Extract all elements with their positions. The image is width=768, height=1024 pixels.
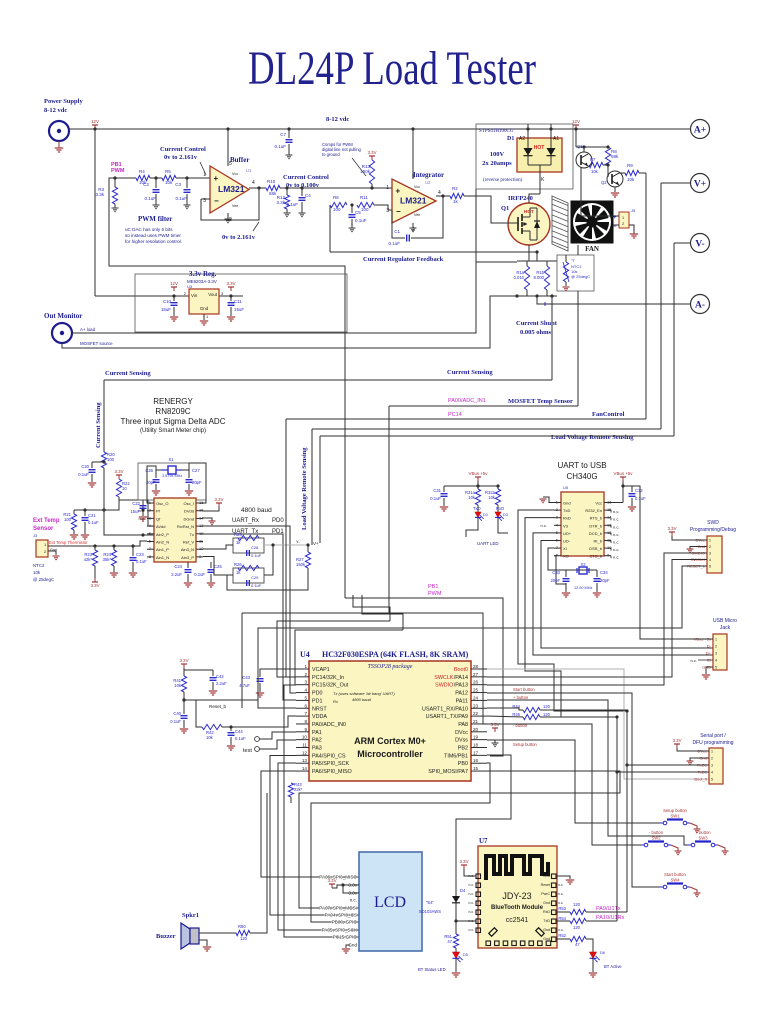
- svg-text:n.c.: n.c.: [350, 898, 357, 903]
- outline box crystal X1: [138, 463, 206, 500]
- svg-text:Q3: Q3: [577, 144, 583, 149]
- svg-text:Current Control: Current Control: [283, 174, 329, 181]
- svg-text:PD1: PD1: [312, 698, 323, 704]
- svg-text:DSR_b: DSR_b: [589, 546, 603, 551]
- svg-text:2: 2: [709, 545, 711, 549]
- wire U2 pin5 to rail: [412, 129, 414, 179]
- terminal A+: [691, 120, 710, 139]
- svg-text:SW4: SW4: [670, 878, 680, 883]
- wire R5 to U1 pin1: [176, 177, 210, 179]
- svg-text:DFU programming: DFU programming: [692, 740, 733, 746]
- wires fan to J5: [613, 215, 619, 217]
- svg-text:C33: C33: [552, 570, 560, 575]
- svg-text:23: 23: [473, 703, 479, 708]
- LCD module: [359, 852, 422, 951]
- JDY right pin: [552, 919, 557, 924]
- MCU DVss ground: [487, 740, 495, 743]
- capacitor C22: [104, 510, 154, 535]
- wire NTC1 sense down: [577, 245, 579, 255]
- svg-text:100: 100: [107, 457, 115, 462]
- svg-text:+: +: [214, 174, 219, 183]
- ground SW2: [671, 845, 678, 851]
- wire ADC Ain3_P to RC2: [203, 557, 233, 576]
- svg-text:HOT: HOT: [534, 145, 545, 151]
- resistor R7: [589, 162, 603, 167]
- svg-text:19: 19: [473, 735, 479, 740]
- ground SW1: [690, 823, 697, 829]
- connector USB micro: [713, 634, 727, 670]
- resistor R31a: [476, 484, 479, 487]
- svg-text:Current Sensing: Current Sensing: [95, 402, 102, 448]
- svg-text:TxD: TxD: [563, 508, 570, 513]
- svg-text:C7: C7: [280, 132, 286, 137]
- svg-text:+ button: + button: [695, 830, 711, 835]
- ground below C2: [155, 194, 157, 205]
- crystal X2 circuit: [548, 548, 576, 570]
- svg-text:n.c.: n.c.: [613, 532, 619, 537]
- capacitor C24: [187, 562, 189, 568]
- svg-text:SWD: SWD: [707, 520, 719, 526]
- svg-text:Vin: Vin: [191, 293, 198, 298]
- svg-text:FAN: FAN: [585, 245, 599, 253]
- svg-text:R7: R7: [590, 157, 596, 162]
- resistor R51: [453, 934, 458, 948]
- svg-text:0.005 ohms: 0.005 ohms: [520, 329, 552, 336]
- svg-text:120: 120: [573, 902, 581, 907]
- svg-text:100: 100: [333, 207, 341, 212]
- svg-text:ARM Cortex M0+: ARM Cortex M0+: [354, 736, 426, 746]
- svg-text:D2: D2: [483, 513, 488, 517]
- svg-text:C21: C21: [88, 513, 96, 518]
- svg-text:(Utility Smart Meter chip): (Utility Smart Meter chip): [140, 428, 206, 434]
- wire PC15 to LCD PC15 GPIO: [284, 685, 359, 937]
- svg-text:BlueTooth Module: BlueTooth Module: [491, 905, 544, 911]
- capacitor C2: [155, 178, 157, 188]
- svg-text:35k*: 35k*: [103, 557, 112, 562]
- svg-text:n.c.: n.c.: [613, 517, 619, 522]
- svg-text:27: 27: [473, 672, 479, 677]
- svg-text:12: 12: [302, 750, 308, 755]
- svg-text:R54: R54: [558, 916, 566, 921]
- svg-text:C10: C10: [163, 299, 172, 304]
- svg-text:USART1_TX/PA9: USART1_TX/PA9: [426, 714, 468, 720]
- svg-text:10k: 10k: [468, 495, 476, 500]
- svg-text:PA12: PA12: [455, 691, 468, 697]
- svg-text:D6: D6: [600, 951, 605, 955]
- svg-text:0v to 2.161v: 0v to 2.161v: [222, 234, 256, 241]
- wire PA4 CS to LCD: [270, 756, 359, 916]
- svg-text:120: 120: [543, 712, 551, 717]
- svg-text:U5: U5: [563, 485, 569, 490]
- wire bundle above MCU 1: [242, 612, 389, 614]
- wire D4 to JDY: [455, 903, 457, 934]
- svg-text:n.c.: n.c.: [469, 919, 475, 923]
- svg-text:Three input Sigma Delta ADC: Three input Sigma Delta ADC: [121, 417, 226, 426]
- svg-text:Load Voltage Remote Sensing: Load Voltage Remote Sensing: [551, 434, 634, 441]
- svg-text:4.7uF: 4.7uF: [239, 683, 250, 688]
- terminal A-: [691, 295, 710, 314]
- svg-text:HC32F030ESPA (64K FLASH, 8K SR: HC32F030ESPA (64K FLASH, 8K SRAM): [322, 650, 469, 659]
- svg-text:Microcontroller: Microcontroller: [357, 749, 423, 759]
- svg-text:22: 22: [473, 711, 479, 716]
- SWD 3.3V: [671, 532, 673, 536]
- svg-text:0.1uF: 0.1uF: [635, 496, 646, 501]
- wire RC2 up to V+ node: [264, 545, 273, 575]
- svg-text:100: 100: [361, 207, 369, 212]
- svg-text:A+ load: A+ load: [80, 327, 96, 332]
- svg-text:TxD: TxD: [543, 919, 550, 923]
- svg-text:A2: A2: [519, 136, 525, 142]
- svg-text:Ain2_P: Ain2_P: [156, 532, 169, 537]
- wire UART_Tx net: [203, 534, 296, 700]
- svg-text:100: 100: [64, 517, 72, 522]
- chip U5 CH340G: [561, 492, 604, 556]
- capacitor C33: [565, 570, 567, 577]
- svg-text:24: 24: [473, 695, 479, 700]
- svg-text:DVcc: DVcc: [455, 730, 468, 736]
- wire U1 pin2 ground: [227, 213, 229, 219]
- JDY corner component right: [536, 928, 544, 936]
- svg-text:7: 7: [304, 711, 307, 716]
- svg-text:SW1: SW1: [670, 814, 680, 819]
- svg-text:PA4/SPI0_CS: PA4/SPI0_CS: [312, 753, 346, 759]
- svg-text:DL24P Load Tester: DL24P Load Tester: [248, 42, 536, 95]
- SWD ground: [690, 547, 707, 550]
- svg-text:15uF: 15uF: [234, 307, 244, 312]
- svg-text:Reset_b: Reset_b: [209, 704, 227, 709]
- JDY 3.3V supply: [463, 865, 465, 869]
- body diode in Q1: [536, 219, 538, 228]
- svg-text:8-12 vdc: 8-12 vdc: [326, 116, 349, 123]
- wire plus button net: [487, 700, 688, 845]
- svg-text:0.1uF: 0.1uF: [274, 144, 286, 149]
- connector serial DFU: [709, 748, 723, 784]
- capacitor C5: [351, 205, 353, 213]
- resistor R2: [450, 193, 464, 198]
- svg-text:C42: C42: [216, 674, 224, 679]
- svg-text:12V: 12V: [170, 281, 178, 286]
- svg-text:@ 25degC: @ 25degC: [571, 274, 590, 279]
- svg-text:Ext Temp Thermistor: Ext Temp Thermistor: [49, 540, 88, 545]
- svg-text:Gnd: Gnd: [543, 874, 550, 878]
- wire CH340G gnd pin1: [543, 497, 554, 503]
- svg-text:C24: C24: [174, 564, 182, 569]
- resistor R27: [306, 543, 309, 546]
- LCD ground: [346, 945, 350, 948]
- svg-text:0.010: 0.010: [514, 275, 525, 280]
- svg-text:3: 3: [711, 764, 713, 768]
- svg-text:PA6/SPI0_MISO: PA6/SPI0_MISO: [312, 769, 352, 775]
- svg-text:Boot_0: Boot_0: [694, 777, 707, 782]
- wire shunt to A- terminal: [537, 296, 690, 304]
- svg-text:PWM: PWM: [428, 591, 442, 597]
- svg-text:Ain2_N: Ain2_N: [156, 540, 169, 545]
- JDY right pin: [552, 892, 557, 897]
- svg-text:UD-: UD-: [563, 539, 571, 544]
- JDY right pin: [552, 874, 557, 879]
- svg-text:Serial port /: Serial port /: [700, 733, 726, 739]
- wire ADC Ain3_N to RC: [203, 545, 233, 549]
- svg-text:XI: XI: [563, 546, 567, 551]
- svg-text:4: 4: [715, 659, 717, 663]
- svg-text:n.c.: n.c.: [558, 901, 564, 905]
- wire NTC1 top: [565, 255, 567, 262]
- svg-text:47: 47: [447, 939, 452, 944]
- resistor R23: [93, 544, 96, 547]
- wire U1 pin5 to rail: [227, 129, 229, 166]
- svg-text:AVdd: AVdd: [156, 524, 166, 529]
- wire PC14 net to MCU: [286, 419, 296, 677]
- svg-text:21: 21: [473, 719, 479, 724]
- svg-text:4: 4: [252, 180, 255, 186]
- capacitor C31: [443, 486, 445, 492]
- capacitor C43 VCAP1: [260, 669, 296, 677]
- JDY right pin: [552, 901, 557, 906]
- svg-text:4: 4: [709, 558, 711, 562]
- diode D1a: [524, 148, 533, 156]
- svg-text:+: +: [396, 186, 401, 195]
- svg-text:V-: V-: [695, 240, 704, 250]
- svg-text:Ext Temp: Ext Temp: [33, 518, 60, 524]
- svg-text:Current Sensing: Current Sensing: [447, 369, 493, 376]
- op-amp U2 LM321: [392, 179, 436, 223]
- svg-text:n.c.: n.c.: [469, 883, 475, 887]
- transistor Q2: [607, 171, 623, 187]
- chip U2 RN8209C ADC: [154, 498, 196, 562]
- svg-text:R6: R6: [333, 195, 339, 200]
- svg-text:2: 2: [715, 645, 717, 649]
- svg-text:1: 1: [386, 185, 389, 191]
- svg-text:Current Regulator Feedback: Current Regulator Feedback: [363, 256, 444, 263]
- svg-text:PA2: PA2: [312, 738, 322, 744]
- svg-text:10k: 10k: [591, 169, 599, 174]
- svg-text:47: 47: [575, 942, 580, 947]
- svg-text:VBus +5v: VBus +5v: [614, 471, 634, 476]
- svg-text:20pF: 20pF: [600, 578, 610, 583]
- svg-text:Vcc: Vcc: [595, 501, 602, 506]
- wire V- sense: [674, 242, 690, 244]
- resistor R21 capacitor C21: [74, 509, 104, 511]
- capacitor C1 feedback: [392, 210, 405, 238]
- svg-text:Ain3_N: Ain3_N: [181, 547, 194, 552]
- svg-text:100V: 100V: [490, 151, 505, 158]
- wire buzzer to R50: [199, 932, 236, 934]
- svg-text:test: test: [243, 748, 252, 754]
- svg-text:1: 1: [622, 216, 624, 220]
- svg-text:Integrator: Integrator: [413, 171, 444, 179]
- svg-text:V+: V+: [694, 180, 706, 190]
- resistor R32a: [496, 484, 499, 487]
- svg-text:Start button: Start button: [513, 687, 535, 692]
- svg-text:Gnd: Gnd: [200, 306, 209, 311]
- svg-text:1: 1: [304, 664, 307, 669]
- svg-text:0.1uF: 0.1uF: [78, 472, 89, 477]
- svg-text:Gnd: Gnd: [543, 937, 550, 941]
- JDY left pin: [476, 874, 481, 879]
- wire J5 ground: [629, 225, 634, 234]
- wire R10 to U2: [280, 187, 392, 189]
- wire start button net: [487, 693, 660, 887]
- wires diodes to rail: [527, 124, 529, 148]
- svg-text:/PA13: /PA13: [454, 683, 468, 689]
- svg-text:Gnd: Gnd: [563, 501, 571, 506]
- power flag 12V at fan: [575, 125, 577, 129]
- test points: [255, 737, 260, 742]
- svg-text:D3: D3: [503, 513, 508, 517]
- svg-text:3.3V: 3.3V: [226, 281, 235, 286]
- wire PB0 loop to LCD: [311, 763, 490, 922]
- svg-text:C40: C40: [173, 711, 181, 716]
- svg-text:BT Active: BT Active: [604, 964, 622, 969]
- JDY top right ground: [556, 876, 570, 879]
- capacitor C23: [131, 544, 134, 547]
- svg-text:HOT: HOT: [524, 209, 534, 214]
- svg-text:U3: U3: [187, 284, 193, 289]
- ground U3: [203, 314, 205, 320]
- ADC DGnd ground: [203, 518, 212, 521]
- svg-text:n.c.: n.c.: [558, 892, 564, 896]
- svg-text:PWM: PWM: [111, 168, 125, 174]
- svg-text:3.3V: 3.3V: [667, 526, 676, 531]
- svg-text:0.1uF: 0.1uF: [286, 202, 298, 207]
- svg-text:150k: 150k: [360, 169, 371, 174]
- resistor R22 3.3V: [118, 475, 120, 479]
- svg-text:6: 6: [304, 703, 307, 708]
- svg-text:Programming/Debug: Programming/Debug: [690, 527, 736, 533]
- wire Q1 drain: [529, 194, 540, 203]
- diode block D1 yellow: [517, 138, 562, 172]
- svg-text:10k: 10k: [174, 683, 182, 688]
- svg-text:R11: R11: [360, 195, 368, 200]
- wire RC to V+ node gray: [264, 544, 308, 546]
- svg-text:RxD: RxD: [543, 910, 550, 914]
- svg-text:DVss: DVss: [455, 738, 468, 744]
- svg-text:Vee: Vee: [414, 213, 420, 217]
- wire R9 to fan control: [639, 172, 646, 174]
- svg-text:D4: D4: [460, 888, 466, 893]
- capacitor C32: [631, 486, 633, 492]
- svg-text:12.00 MHz: 12.00 MHz: [574, 586, 592, 590]
- wire R50 up: [250, 793, 267, 933]
- svg-text:Current Sensing: Current Sensing: [105, 370, 151, 377]
- wire to D4: [456, 755, 511, 896]
- wire U2 output to R2: [436, 195, 450, 197]
- wire SWCLK net: [487, 560, 707, 678]
- svg-text:Q1: Q1: [501, 205, 509, 212]
- svg-text:CTS_b: CTS_b: [590, 554, 603, 559]
- svg-text:11: 11: [302, 743, 307, 748]
- svg-text:PA0/ADC_IN0: PA0/ADC_IN0: [312, 722, 346, 728]
- svg-text:so instead uses PWM timer: so instead uses PWM timer: [125, 233, 181, 238]
- JDY left pin: [476, 892, 481, 897]
- capacitor C34: [596, 570, 598, 577]
- svg-text:C4: C4: [305, 193, 311, 198]
- svg-text:0.1uF: 0.1uF: [136, 559, 147, 564]
- svg-text:PA06, SPI0_MISO: PA06, SPI0_MISO: [319, 875, 357, 880]
- LED D5 BT Status: [455, 948, 457, 952]
- svg-text:NTC2: NTC2: [33, 563, 45, 568]
- svg-text:n.c.: n.c.: [558, 883, 564, 887]
- svg-text:1: 1: [709, 539, 711, 543]
- svg-text:C23: C23: [136, 552, 144, 557]
- wire PWM input net: [109, 178, 345, 598]
- svg-text:4800 baud: 4800 baud: [241, 507, 272, 514]
- svg-text:Out Monitor: Out Monitor: [44, 312, 82, 320]
- svg-text:+ button: + button: [513, 695, 529, 700]
- svg-text:1k: 1k: [453, 199, 459, 204]
- wire 12V to transistors: [575, 129, 577, 147]
- svg-text:D5: D5: [463, 953, 468, 957]
- transistor Q3: [576, 152, 592, 168]
- svg-text:10k: 10k: [488, 495, 496, 500]
- svg-text:R232_En: R232_En: [585, 508, 602, 513]
- svg-text:D+: D+: [706, 651, 712, 656]
- svg-text:3.3k: 3.3k: [95, 192, 104, 197]
- svg-text:DTR_b: DTR_b: [589, 523, 602, 528]
- svg-text:n.c.: n.c.: [613, 509, 619, 514]
- svg-text:28: 28: [473, 664, 479, 669]
- svg-text:PC14: PC14: [448, 412, 462, 418]
- svg-text:3.3V: 3.3V: [672, 738, 681, 743]
- svg-text:UART to USB: UART to USB: [557, 461, 606, 470]
- wire VBus net: [632, 486, 713, 639]
- svg-text:A+: A+: [694, 126, 706, 136]
- svg-text:DCD_b: DCD_b: [589, 531, 603, 536]
- svg-text:DGnd: DGnd: [184, 516, 194, 521]
- svg-text:C32: C32: [635, 488, 643, 493]
- svg-text:n.c.: n.c.: [613, 547, 619, 552]
- svg-text:5: 5: [304, 695, 307, 700]
- svg-text:15: 15: [473, 766, 479, 771]
- svg-text:0.1uF: 0.1uF: [430, 496, 441, 501]
- svg-text:STPS41H100CG: STPS41H100CG: [479, 129, 514, 134]
- svg-text:(reverse protection): (reverse protection): [483, 178, 523, 183]
- svg-text:120: 120: [543, 704, 551, 709]
- svg-text:A1: A1: [553, 136, 559, 142]
- svg-text:n.c.: n.c.: [139, 516, 145, 521]
- svg-text:C44: C44: [235, 729, 243, 734]
- wire PA5 SCK to LCD: [278, 763, 359, 930]
- svg-text:PA5/SPI0_SCK: PA5/SPI0_SCK: [312, 761, 349, 767]
- svg-text:10k: 10k: [206, 735, 214, 740]
- wire current regulator feedback: [330, 252, 537, 261]
- svg-text:BT Status LED: BT Status LED: [418, 967, 446, 972]
- svg-text:PA00/ADC_IN1: PA00/ADC_IN1: [448, 398, 486, 404]
- svg-text:R52: R52: [558, 933, 566, 938]
- RC filter R26 C29: [233, 568, 264, 583]
- svg-text:R50: R50: [238, 924, 246, 929]
- wire PB1 PWM to MCU: [345, 598, 503, 756]
- svg-text:4800 baud: 4800 baud: [352, 697, 372, 702]
- svg-text:8.000: 8.000: [534, 275, 545, 280]
- JDY right pin: [552, 910, 557, 915]
- svg-text:n.c.: n.c.: [541, 523, 547, 528]
- svg-text:4: 4: [304, 688, 307, 693]
- capacitor C44: [229, 725, 232, 728]
- wire J5 plus from Q3: [581, 168, 613, 216]
- svg-text:4: 4: [438, 190, 441, 196]
- svg-text:0v to 2.161v: 0v to 2.161v: [164, 154, 198, 161]
- wire U2 pin2 ground: [412, 223, 414, 228]
- wire TxD net: [518, 510, 627, 711]
- svg-text:Gnd: Gnd: [543, 928, 550, 932]
- svg-text:PA11: PA11: [456, 698, 468, 704]
- connector SWD: [707, 536, 722, 573]
- svg-text:CH340G: CH340G: [566, 472, 597, 481]
- svg-text:RENERGY: RENERGY: [153, 397, 193, 406]
- svg-text:R26: R26: [234, 562, 242, 567]
- svg-text:0.1uF: 0.1uF: [251, 553, 262, 558]
